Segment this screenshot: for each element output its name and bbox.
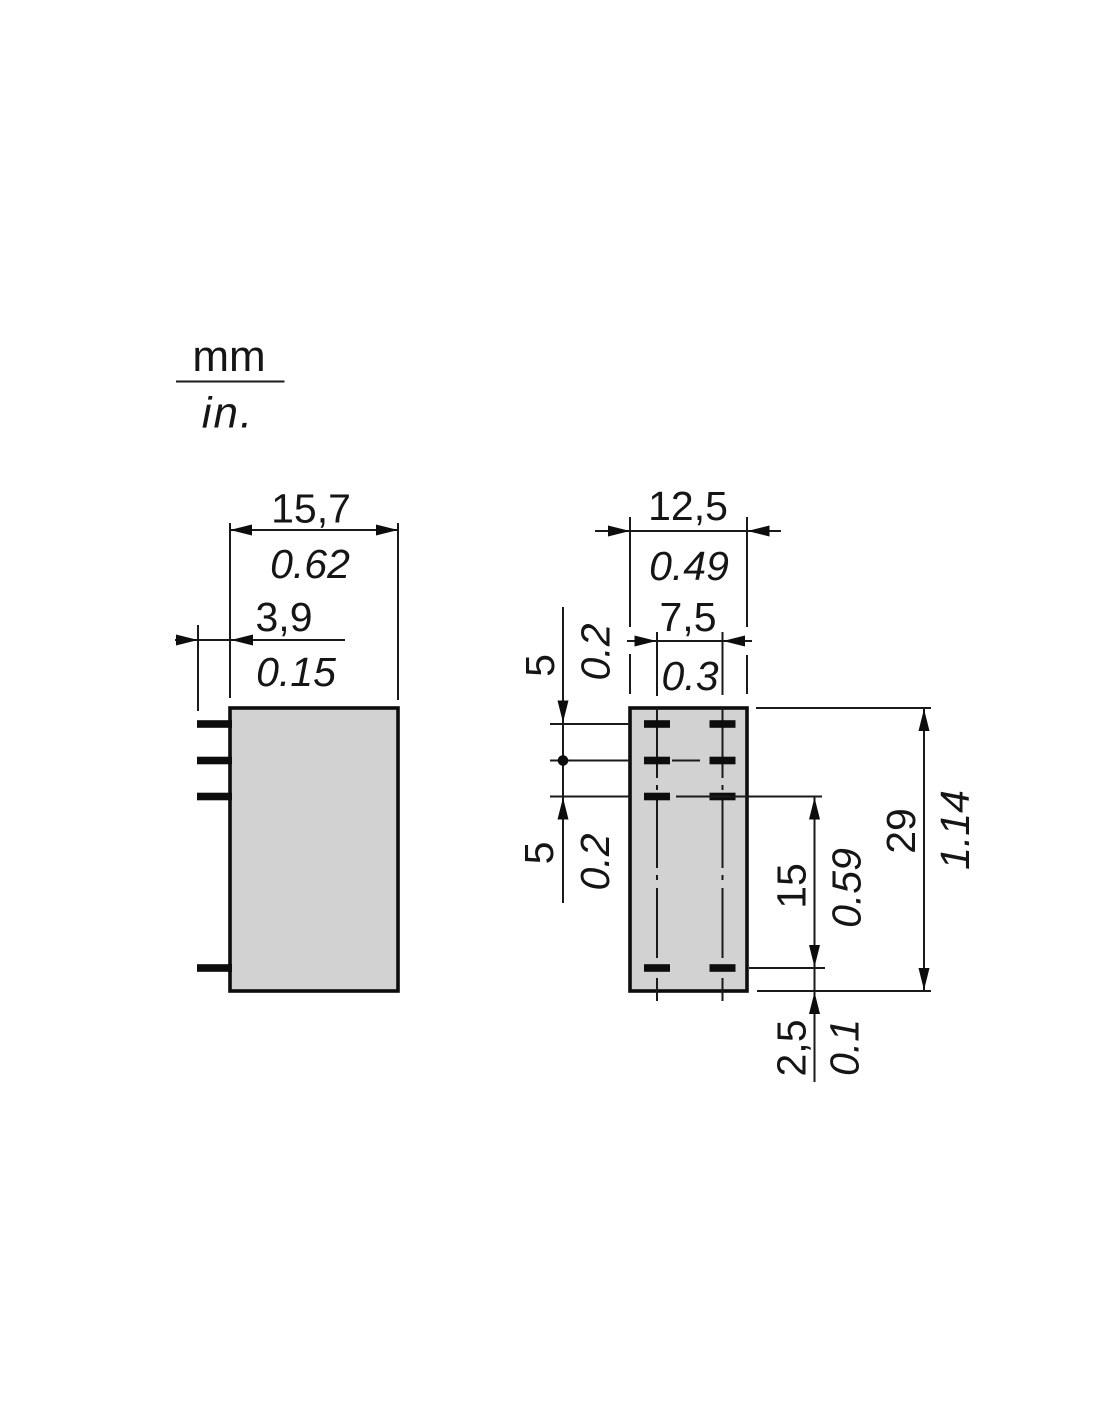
pin pad row3 col1: [644, 793, 670, 801]
svg-text:0.2: 0.2: [572, 833, 618, 890]
dim 12,5 arrow right: [748, 526, 770, 537]
svg-text:in.: in.: [202, 389, 254, 438]
pin pad row2 col2: [710, 757, 736, 765]
pin pad row2 col1: [644, 757, 670, 765]
svg-text:0.15: 0.15: [256, 649, 336, 695]
dim 15,7 extension line right: [397, 523, 399, 700]
row3 center segment and right extension: [676, 796, 822, 798]
svg-text:15: 15: [768, 863, 814, 909]
dim 5 upper arrow down: [558, 701, 569, 723]
row2 extension line left: [550, 760, 630, 762]
dim 3,9 extension line pin tip: [197, 625, 199, 711]
row3 extension line left: [550, 796, 630, 798]
row2 center segment: [672, 760, 700, 762]
row1 extension line left: [550, 723, 630, 725]
svg-text:2,5: 2,5: [768, 1020, 814, 1077]
pin 4 side view: [197, 964, 232, 972]
dim 12,5 extension left lower: [629, 654, 631, 694]
pin column 2 center line: [722, 708, 724, 1001]
dim 12,5 extension right lower: [746, 655, 748, 694]
svg-text:0.62: 0.62: [270, 541, 350, 587]
pin 3 side view: [197, 793, 232, 801]
pin pad row1 col1: [644, 720, 670, 728]
dim 12,5 extension left upper: [629, 517, 631, 627]
dim 3,9 arrow left: [176, 635, 198, 646]
svg-text:1.14: 1.14: [932, 790, 978, 870]
dim 29 arrow down: [919, 968, 930, 990]
dim 12,5 dimension line: [595, 530, 781, 532]
svg-text:5: 5: [517, 654, 563, 677]
body bottom extension line right: [757, 990, 931, 992]
svg-text:mm: mm: [192, 332, 265, 381]
svg-text:3,9: 3,9: [256, 594, 313, 640]
svg-text:0.3: 0.3: [662, 653, 719, 699]
dim 5 chain dimension line: [562, 607, 564, 903]
dim 15,7 dimension line: [230, 529, 398, 531]
body top extension line right: [756, 707, 931, 709]
svg-text:15,7: 15,7: [271, 486, 351, 532]
pin 1 side view: [197, 720, 232, 728]
relay body side view: [230, 708, 398, 991]
pin pad row1 col2: [710, 720, 736, 728]
pin pad row4 col2: [710, 964, 736, 972]
row4 extension line right: [749, 967, 825, 969]
svg-text:29: 29: [878, 808, 924, 854]
dim 15,7 extension line left: [229, 523, 231, 698]
dim 12,5 arrow left: [608, 526, 630, 537]
dim 15 arrow down: [809, 945, 820, 967]
dim 7,5 extension left: [656, 632, 658, 696]
pin 2 side view: [197, 757, 232, 765]
dim 29 dimension line: [923, 709, 925, 990]
datum dot row2: [558, 755, 569, 766]
dim 3,9 arrow right: [231, 635, 253, 646]
svg-text:0.2: 0.2: [572, 623, 618, 680]
dim 2,5 arrow up: [809, 992, 820, 1014]
svg-text:7,5: 7,5: [660, 594, 717, 640]
dim 15,7 arrow left: [230, 525, 252, 536]
svg-text:0.1: 0.1: [821, 1019, 867, 1076]
dim 12,5 extension right upper: [746, 517, 748, 627]
dim 7,5 dimension line: [627, 640, 752, 642]
legend fraction bar: [176, 381, 285, 383]
dim 3,9 dimension line: [175, 639, 345, 641]
svg-text:0.59: 0.59: [823, 848, 869, 928]
dim 5 lower arrow up: [558, 798, 569, 820]
svg-text:12,5: 12,5: [648, 483, 728, 529]
pin pad row3 col2: [710, 793, 736, 801]
relay body bottom view: [630, 708, 747, 991]
svg-text:0.49: 0.49: [649, 543, 729, 589]
dim 29 arrow up: [919, 709, 930, 731]
svg-text:5: 5: [516, 842, 562, 865]
dim 7,5 extension right: [722, 632, 724, 695]
dim 15 and 2,5 dimension line: [814, 797, 816, 1082]
dim 7,5 arrow left: [635, 636, 657, 647]
pin column 1 center line: [656, 708, 658, 1001]
dim 15,7 arrow right: [376, 525, 398, 536]
dim 15 arrow up: [809, 798, 820, 820]
dim 7,5 arrow right: [723, 636, 745, 647]
pin pad row4 col1: [644, 964, 670, 972]
